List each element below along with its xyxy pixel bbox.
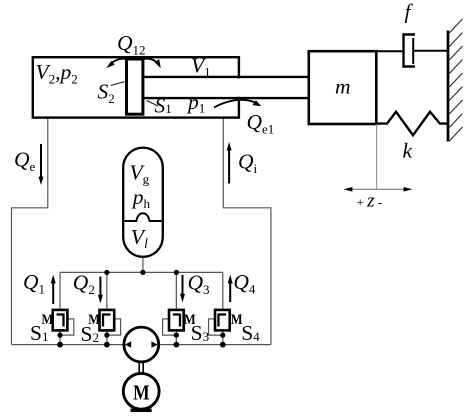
- external leakage arc Qe1 over cylinder edge: [214, 100, 261, 108]
- junction dot S4 bypass pin: [220, 333, 225, 338]
- junction dot bus S2: [104, 342, 110, 348]
- junction dot bus S4: [220, 342, 226, 348]
- motor shaft double line: [139, 362, 143, 374]
- piston S2/S1: [127, 59, 143, 114]
- junction dot S3 bypass pin: [174, 333, 179, 338]
- junction dot top bus S2: [104, 270, 109, 275]
- damper f cup: [404, 35, 416, 67]
- wire: left pipe from cylinder V2 port down to bottom-left bus: [12, 118, 48, 345]
- leakage arrow right of piston: [144, 59, 161, 68]
- wire: bottom bus left segment to pump: [12, 344, 125, 346]
- flow arrow Qe (down): [39, 144, 44, 185]
- flow arrow Q2 (down): [98, 277, 103, 304]
- wire: S3 bypass loop: [163, 319, 177, 335]
- wire: S4 bottom pin: [222, 330, 224, 344]
- wire: S4 top pipe: [222, 272, 224, 310]
- accumulator membrane: [125, 213, 162, 221]
- mass block m: [309, 51, 377, 124]
- leakage arrow left of piston: [106, 59, 126, 68]
- wire: S1 bypass loop: [60, 319, 74, 335]
- wall hatching: [449, 19, 463, 142]
- svg-text:m: m: [335, 75, 351, 99]
- valve S2 body: [100, 310, 115, 331]
- wire: top bus connecting valve tops and accumulator: [60, 271, 223, 273]
- wire: bottom bus right segment to pump: [159, 344, 271, 346]
- valve S4 poppet hook: [219, 315, 227, 327]
- svg-text:M: M: [42, 312, 54, 328]
- wall: [447, 31, 450, 142]
- wire: S1 bottom pin: [59, 330, 61, 344]
- wire: S2 bypass loop: [107, 319, 121, 335]
- rod passage gap in cylinder right wall: [236, 78, 243, 96]
- pump circle: [124, 327, 159, 362]
- piston rod bottom line: [144, 97, 308, 99]
- junction dot top bus accumulator: [140, 270, 145, 275]
- flow arrow Q4 (up): [228, 275, 233, 302]
- valve S2 poppet hook: [103, 315, 111, 327]
- svg-text:k: k: [403, 139, 413, 163]
- damper rod left: [376, 50, 402, 52]
- pump right triangle: [151, 341, 157, 347]
- piston rod top line: [144, 76, 308, 78]
- junction dot bus S1: [57, 342, 63, 348]
- junction dot S1 bypass pin: [57, 333, 62, 338]
- valve S3 poppet hook: [173, 315, 180, 327]
- svg-text:M: M: [133, 381, 150, 405]
- wire: accumulator pipe: [142, 257, 144, 273]
- damper rod right: [413, 50, 447, 52]
- flow arrow Q3 (down): [180, 275, 185, 303]
- valve S1 poppet hook: [57, 315, 64, 327]
- valve S1 body: [53, 310, 68, 331]
- valve S3 body: [169, 310, 184, 331]
- wire: S1 top pipe: [59, 272, 61, 310]
- valve S4 body: [215, 310, 230, 331]
- label S2 piston leader: [111, 82, 125, 86]
- wire: S3 bottom pin: [175, 330, 177, 344]
- accumulator shell: [123, 148, 163, 257]
- wire: S4 bypass loop: [209, 319, 223, 335]
- spring k: [376, 112, 448, 135]
- pump left triangle: [125, 341, 131, 347]
- wire: S3 top pipe: [175, 272, 177, 310]
- motor base bar: [131, 409, 152, 412]
- wire: S2 bottom pin: [106, 330, 108, 344]
- thin reference line from mass to z axis: [376, 124, 378, 189]
- junction dot bus S3: [173, 342, 179, 348]
- wire: right pipe from cylinder p1 port down to bottom-right bus: [223, 118, 271, 345]
- junction dot top bus S3: [174, 270, 179, 275]
- motor circle: [123, 373, 159, 409]
- z measurement axis: [344, 187, 413, 192]
- damper piston plate: [412, 38, 414, 64]
- svg-text:+ z -: + z -: [357, 191, 383, 212]
- cylinder body: [33, 57, 239, 117]
- flow arrow Qi (up): [227, 142, 232, 184]
- label S1 leader: [147, 101, 159, 107]
- flow arrow Q1 (up): [51, 275, 56, 304]
- junction dot S2 bypass pin: [104, 333, 109, 338]
- wire: S2 top pipe: [106, 272, 108, 310]
